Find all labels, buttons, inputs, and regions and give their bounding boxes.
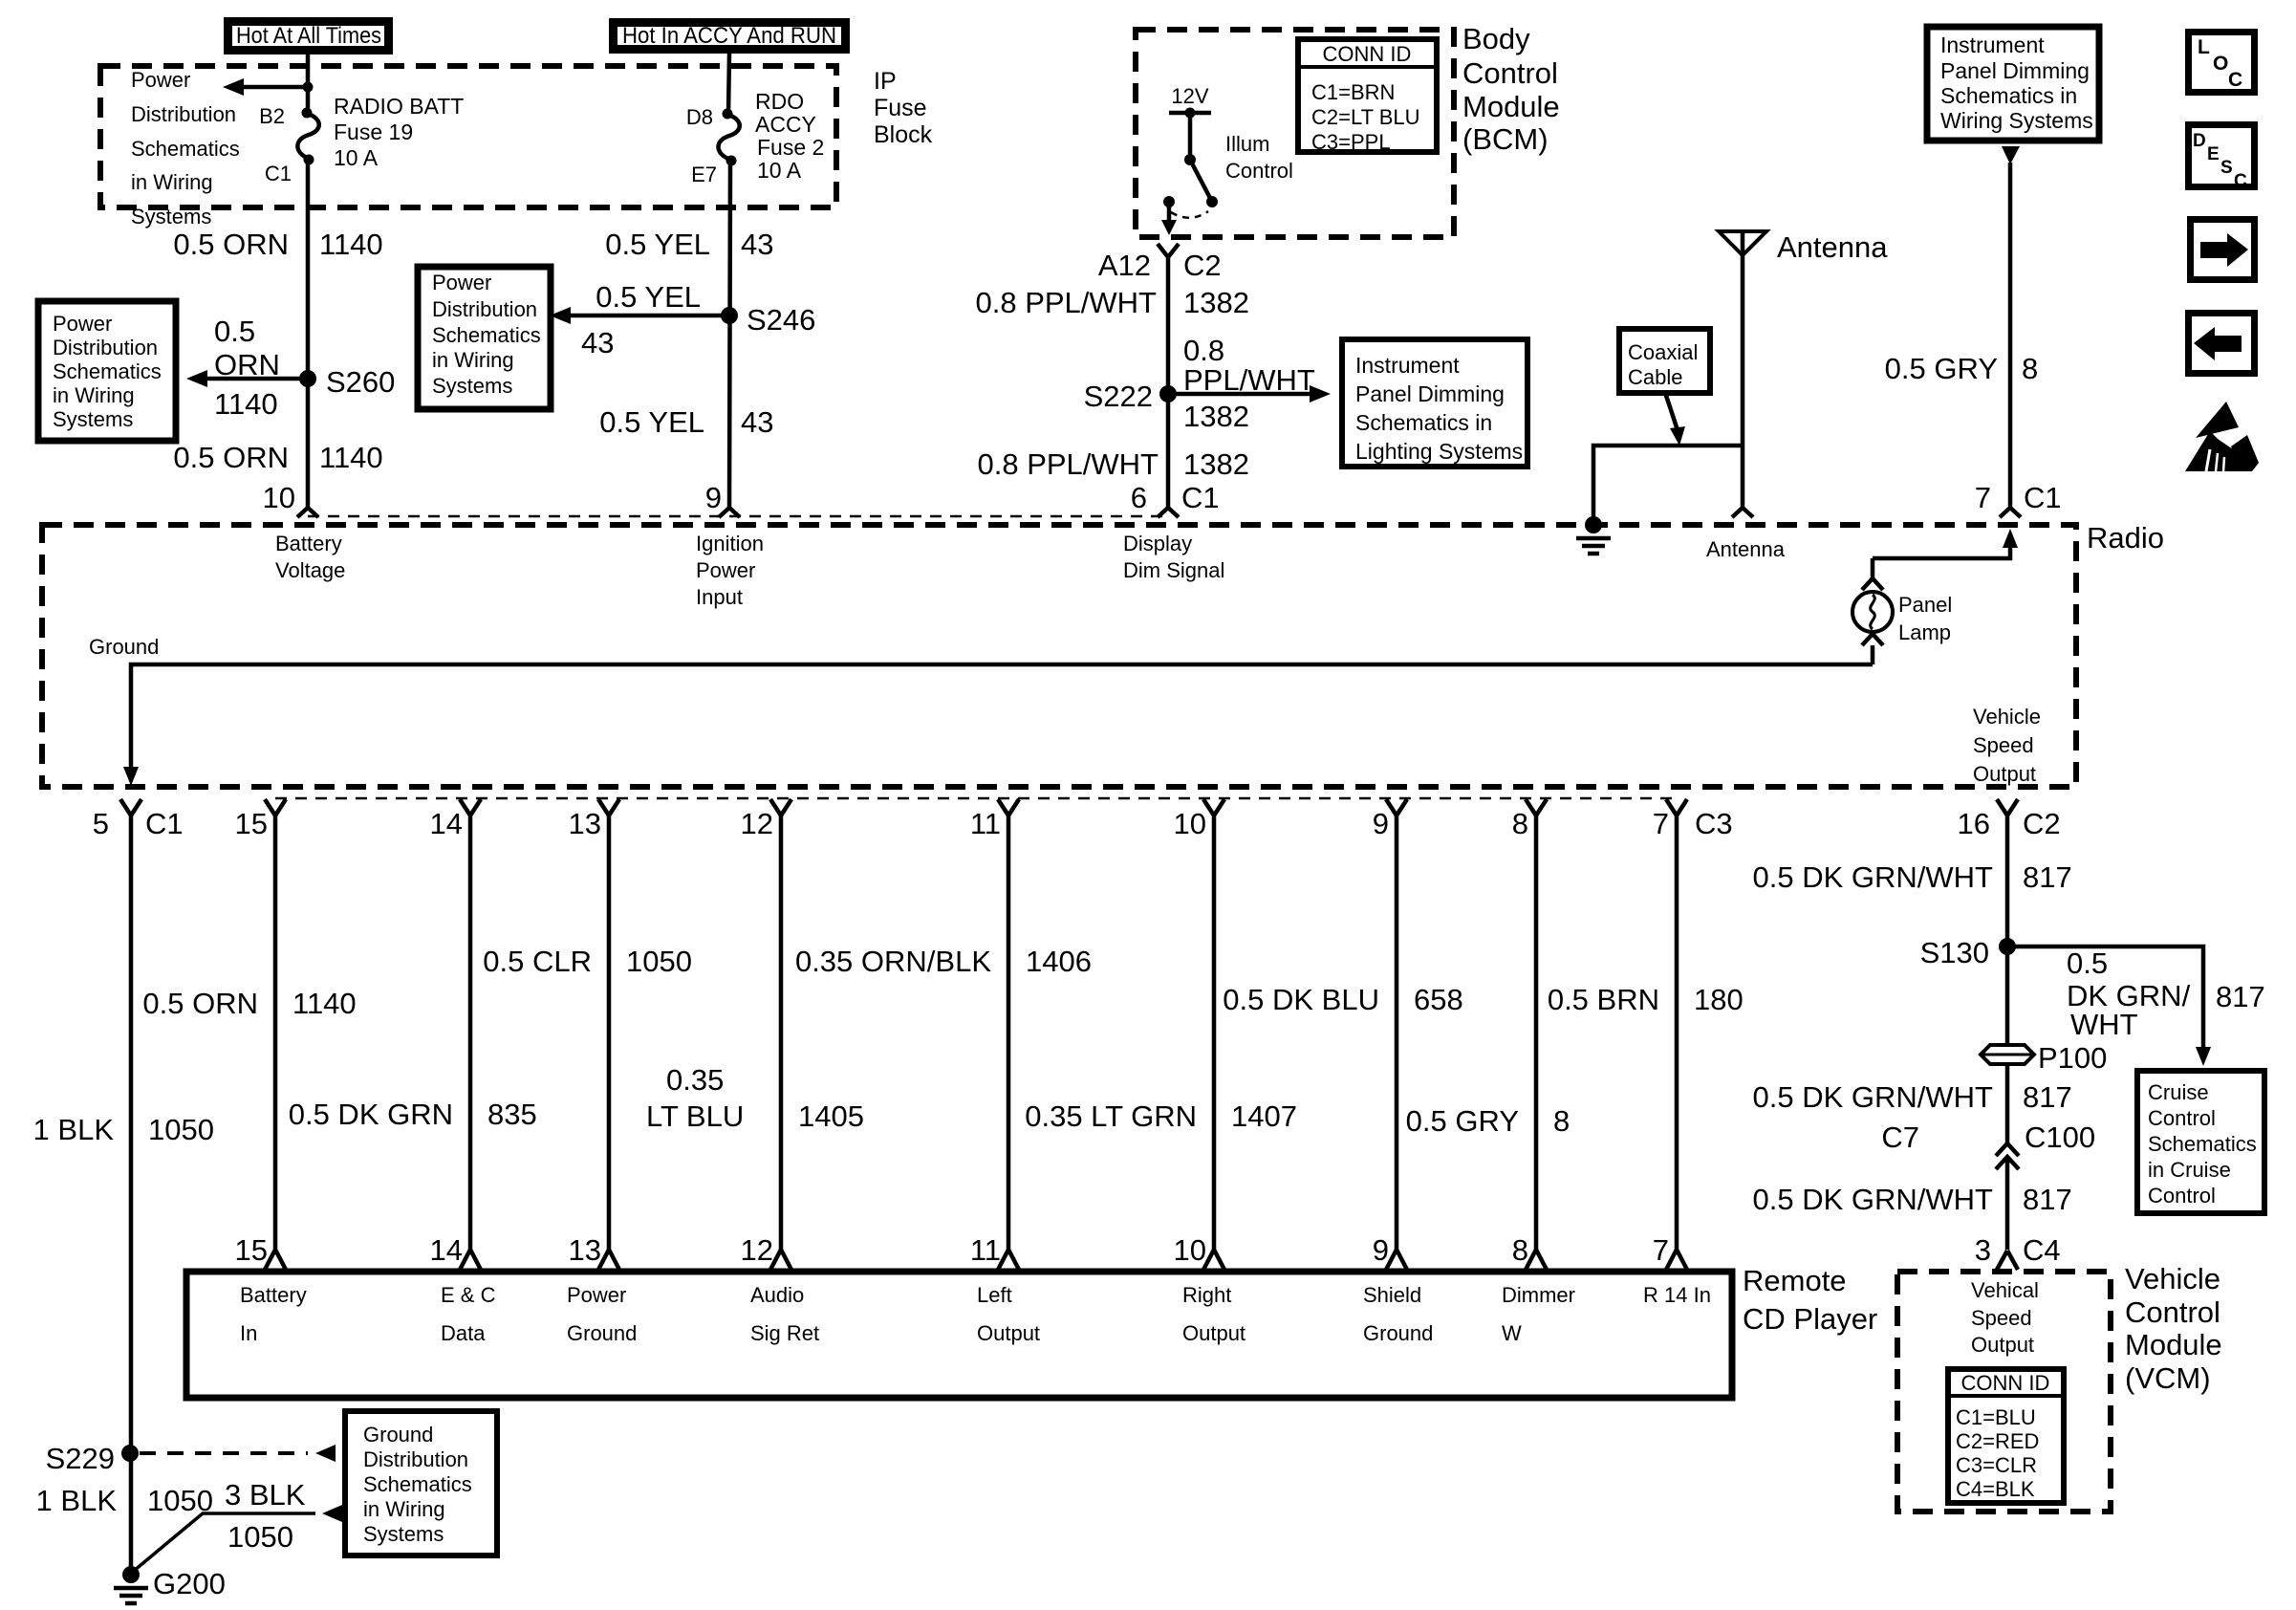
connector C3 dashed line (radio bottom) [275, 797, 1677, 800]
svg-text:Instrument: Instrument [1355, 353, 1460, 378]
svg-text:Fuse 2: Fuse 2 [757, 135, 824, 160]
svg-text:P100: P100 [2038, 1041, 2107, 1075]
svg-text:Schematics in: Schematics in [1355, 410, 1492, 435]
svg-text:Block: Block [874, 121, 933, 148]
svg-text:Systems: Systems [363, 1522, 444, 1546]
svg-text:CD Player: CD Player [1743, 1302, 1877, 1336]
wire arrow from S222 to instrument panel dimming reference [1168, 392, 1314, 397]
svg-text:Panel: Panel [1898, 593, 1952, 617]
svg-text:R 14 In: R 14 In [1643, 1283, 1711, 1307]
svg-text:D: D [2193, 131, 2206, 151]
svg-text:C2=RED: C2=RED [1956, 1429, 2039, 1453]
svg-text:1140: 1140 [319, 228, 383, 261]
svg-text:8: 8 [1512, 1233, 1528, 1267]
svg-text:10 A: 10 A [757, 158, 802, 183]
splice S246 [721, 307, 738, 324]
svg-text:Control: Control [1462, 56, 1558, 90]
svg-text:Panel Dimming: Panel Dimming [1355, 381, 1505, 406]
svg-text:Cruise: Cruise [2148, 1080, 2209, 1104]
svg-text:E & C: E & C [441, 1283, 496, 1307]
svg-text:WHT: WHT [2070, 1008, 2138, 1041]
svg-text:7: 7 [1975, 481, 1991, 514]
svg-text:S260: S260 [326, 365, 395, 399]
svg-text:Control: Control [1225, 159, 1293, 183]
pin 11 wire [998, 799, 1008, 816]
Radio dashed box [42, 525, 2076, 787]
svg-text:C7: C7 [1881, 1120, 1919, 1154]
svg-text:8: 8 [1512, 807, 1528, 840]
svg-text:Distribution: Distribution [363, 1447, 468, 1471]
arrow from coaxial cable box to wire [1665, 393, 1678, 430]
label box "Hot In ACCY And RUN" [614, 23, 846, 50]
svg-text:Wiring Systems: Wiring Systems [1940, 108, 2093, 133]
svg-text:RDO: RDO [755, 89, 804, 114]
svg-text:Distribution: Distribution [53, 336, 158, 359]
svg-text:1140: 1140 [292, 987, 357, 1020]
svg-text:C: C [2228, 69, 2242, 91]
svg-text:Module: Module [2125, 1328, 2222, 1361]
svg-text:C3=CLR: C3=CLR [1956, 1453, 2037, 1477]
svg-text:Hot At All Times: Hot At All Times [236, 23, 381, 49]
svg-text:0.5: 0.5 [214, 315, 255, 348]
svg-text:G200: G200 [153, 1567, 226, 1600]
note box Ground Distribution Schematics in Wiring Systems [345, 1411, 497, 1556]
svg-text:0.5 DK BLU: 0.5 DK BLU [1223, 983, 1379, 1016]
svg-text:Distribution: Distribution [131, 102, 236, 126]
svg-text:Dim Signal: Dim Signal [1123, 558, 1224, 582]
svg-text:D8: D8 [686, 105, 713, 129]
svg-text:Schematics: Schematics [2148, 1132, 2257, 1156]
svg-text:Power: Power [567, 1283, 626, 1307]
svg-text:8: 8 [1553, 1104, 1570, 1138]
svg-text:12V: 12V [1171, 84, 1208, 108]
svg-text:PPL/WHT: PPL/WHT [1183, 363, 1315, 397]
svg-text:817: 817 [2023, 1183, 2072, 1216]
sidebar left arrow box [2189, 314, 2255, 374]
svg-text:C1=BLU: C1=BLU [1956, 1405, 2036, 1429]
wire arrow to power distribution reference [239, 85, 308, 90]
wire 0.5 DK GRN/WHT 817 below P100 [2005, 1065, 2010, 1143]
Remote CD Player box [186, 1272, 1732, 1398]
svg-text:Right: Right [1182, 1283, 1231, 1307]
wire 3 BLK 1050 from G200 to reference [134, 1513, 315, 1571]
arrow from reference box down [2002, 146, 2020, 164]
svg-text:Schematics in: Schematics in [1940, 83, 2077, 108]
svg-text:12: 12 [741, 1233, 773, 1267]
svg-text:Module: Module [1462, 90, 1560, 123]
wire branch 0.5 DK GRN/WHT 817 to cruise control [2007, 946, 2203, 1048]
svg-text:0.35 ORN/BLK: 0.35 ORN/BLK [795, 945, 991, 978]
antenna symbol [1719, 231, 1766, 255]
svg-text:CONN ID: CONN ID [1961, 1371, 2050, 1395]
svg-text:Ground: Ground [567, 1321, 637, 1345]
pin 8 wire [1526, 799, 1536, 816]
pin A12 C2 of BCM [1158, 244, 1168, 257]
svg-text:S: S [2220, 158, 2233, 178]
note box Coaxial Cable [1619, 329, 1710, 393]
label box "Hot At All Times" [228, 22, 389, 51]
svg-text:Power: Power [53, 312, 112, 336]
svg-text:1 BLK: 1 BLK [33, 1113, 115, 1146]
svg-text:(VCM): (VCM) [2125, 1361, 2211, 1395]
svg-text:Input: Input [696, 585, 743, 609]
svg-text:C3: C3 [1695, 807, 1733, 840]
wire arrow from S260 to power distribution reference [203, 377, 308, 381]
svg-text:1140: 1140 [319, 441, 383, 474]
svg-text:15: 15 [235, 1233, 268, 1267]
pin 10 wire [1203, 799, 1214, 816]
svg-text:C4=BLK: C4=BLK [1956, 1477, 2035, 1501]
svg-text:E: E [2207, 144, 2220, 164]
pin 9 wire [1386, 799, 1397, 816]
svg-text:Body: Body [1462, 22, 1530, 55]
svg-text:13: 13 [569, 1233, 601, 1267]
svg-text:Schematics: Schematics [53, 359, 162, 383]
svg-text:8: 8 [2022, 352, 2038, 385]
svg-text:in Wiring: in Wiring [131, 170, 213, 194]
note box Instrument Panel Dimming Schematics in Lighting Systems [1342, 339, 1527, 467]
svg-text:1407: 1407 [1231, 1099, 1297, 1133]
svg-text:1382: 1382 [1183, 286, 1249, 319]
svg-text:3 BLK: 3 BLK [225, 1478, 306, 1512]
svg-text:0.5 DK GRN: 0.5 DK GRN [289, 1098, 453, 1131]
svg-text:3: 3 [1975, 1233, 1991, 1267]
svg-text:S246: S246 [747, 303, 815, 337]
sidebar DESC box [2189, 125, 2255, 187]
svg-text:10: 10 [1174, 1233, 1206, 1267]
Body Control Module dashed box [1136, 30, 1454, 237]
svg-text:RADIO BATT: RADIO BATT [334, 94, 464, 119]
svg-text:Speed: Speed [1973, 733, 2034, 757]
svg-text:O: O [2213, 53, 2228, 75]
svg-text:Sig Ret: Sig Ret [750, 1321, 819, 1345]
svg-text:0.5 DK GRN/WHT: 0.5 DK GRN/WHT [1753, 1183, 1994, 1216]
svg-text:C1: C1 [265, 162, 292, 185]
svg-text:0.5 DK GRN/WHT: 0.5 DK GRN/WHT [1753, 860, 1994, 894]
svg-text:0.35: 0.35 [666, 1063, 724, 1097]
svg-text:12: 12 [741, 807, 773, 840]
svg-text:16: 16 [1958, 807, 1990, 840]
svg-text:0.5 GRY: 0.5 GRY [1885, 352, 1998, 385]
svg-text:C1: C1 [1181, 481, 1220, 514]
svg-text:Instrument: Instrument [1940, 33, 2045, 57]
svg-text:Audio: Audio [750, 1283, 804, 1307]
svg-text:10: 10 [263, 481, 295, 514]
svg-text:Power: Power [432, 271, 491, 294]
svg-text:Ground: Ground [1363, 1321, 1433, 1345]
svg-text:Systems: Systems [432, 374, 512, 398]
CONN ID table (VCM) [1948, 1369, 2064, 1503]
svg-text:817: 817 [2023, 860, 2072, 894]
svg-text:Voltage: Voltage [275, 558, 345, 582]
pin 14 wire [460, 799, 470, 816]
svg-text:1 BLK: 1 BLK [36, 1484, 118, 1517]
coaxial cable ground shield wire [1593, 446, 1743, 525]
CONN ID table (BCM) [1298, 39, 1437, 152]
pin 12 wire [770, 799, 781, 816]
pin 13 wire [598, 799, 609, 816]
svg-text:1406: 1406 [1026, 945, 1092, 978]
svg-text:C: C [2234, 171, 2247, 191]
svg-text:C1=BRN: C1=BRN [1311, 80, 1395, 104]
svg-text:835: 835 [487, 1098, 537, 1131]
svg-text:Shield: Shield [1363, 1283, 1421, 1307]
svg-text:1050: 1050 [626, 945, 692, 978]
svg-text:LT BLU: LT BLU [646, 1099, 744, 1133]
svg-text:Distribution: Distribution [432, 297, 537, 321]
svg-text:C3=PPL: C3=PPL [1311, 130, 1391, 154]
sidebar ESD symbol [2196, 402, 2239, 438]
svg-text:Schematics: Schematics [432, 323, 541, 347]
svg-text:Output: Output [977, 1321, 1040, 1345]
splice S229 [121, 1445, 139, 1462]
svg-text:Power: Power [131, 68, 190, 92]
svg-text:S130: S130 [1920, 936, 1989, 969]
svg-text:in Wiring: in Wiring [432, 348, 514, 372]
svg-text:Control: Control [2125, 1295, 2220, 1329]
svg-text:9: 9 [705, 481, 722, 514]
svg-text:Power: Power [696, 558, 755, 582]
node junction [303, 82, 314, 93]
svg-text:817: 817 [2216, 980, 2265, 1013]
svg-text:0.5 ORN: 0.5 ORN [173, 228, 289, 261]
svg-text:0.5 CLR: 0.5 CLR [483, 945, 592, 978]
pin 15 wire [265, 799, 275, 816]
Vehicle Control Module dashed box [1897, 1272, 2111, 1512]
sidebar right arrow box [2191, 220, 2255, 280]
svg-text:14: 14 [430, 807, 463, 840]
dashed wire from S229 to ground distribution reference [140, 1451, 308, 1455]
svg-text:0.5 GRY: 0.5 GRY [1406, 1104, 1519, 1138]
svg-text:C2: C2 [2023, 807, 2061, 840]
note box Instrument Panel Dimming Schematics in Wiring Systems (top right) [1927, 27, 2099, 141]
sidebar LOC box [2189, 33, 2255, 93]
svg-text:0.5 YEL: 0.5 YEL [605, 228, 710, 261]
svg-text:C2=LT BLU: C2=LT BLU [1311, 105, 1420, 129]
svg-text:W: W [1502, 1321, 1522, 1345]
svg-text:in Wiring: in Wiring [363, 1497, 445, 1521]
svg-text:Control: Control [2148, 1106, 2216, 1130]
note box Cruise Control Schematics in Cruise Control [2137, 1071, 2264, 1213]
svg-text:14: 14 [430, 1233, 463, 1267]
svg-text:Illum: Illum [1225, 132, 1269, 156]
switch Illum Control [1188, 113, 1193, 160]
svg-text:Vehicle: Vehicle [2125, 1262, 2220, 1295]
svg-text:10: 10 [1174, 807, 1206, 840]
svg-text:5: 5 [93, 807, 109, 840]
svg-text:Antenna: Antenna [1706, 537, 1786, 561]
svg-text:13: 13 [569, 807, 601, 840]
svg-text:Left: Left [977, 1283, 1012, 1307]
svg-text:9: 9 [1373, 807, 1389, 840]
svg-text:180: 180 [1694, 983, 1744, 1016]
svg-text:Systems: Systems [53, 407, 133, 431]
svg-text:B2: B2 [259, 104, 285, 128]
wire 0.5 DK GRN/WHT 817 (vehicle speed) [2005, 816, 2010, 1044]
splice S260 [299, 370, 316, 387]
svg-text:11: 11 [970, 807, 1001, 840]
wire from Hot At All Times into fuse B2 [306, 54, 311, 113]
svg-text:0.5 YEL: 0.5 YEL [599, 405, 704, 439]
svg-text:C4: C4 [2023, 1233, 2061, 1267]
svg-text:Lighting Systems: Lighting Systems [1355, 439, 1523, 464]
svg-text:10 A: 10 A [334, 145, 379, 170]
panel lamp [1871, 558, 1875, 578]
svg-text:0.35 LT GRN: 0.35 LT GRN [1025, 1099, 1197, 1133]
wire 0.5 ORN 1140 from fuse to radio pin 10 [306, 160, 311, 508]
svg-text:43: 43 [741, 228, 773, 261]
svg-text:Schematics: Schematics [131, 137, 240, 161]
svg-text:A12: A12 [1098, 249, 1151, 282]
svg-text:7: 7 [1653, 807, 1669, 840]
pin 16 C2 of radio [1997, 799, 2007, 816]
svg-text:C2: C2 [1183, 249, 1222, 282]
svg-text:Control: Control [2148, 1184, 2216, 1207]
svg-text:(BCM): (BCM) [1462, 122, 1549, 156]
IP Fuse Block dashed box [100, 66, 836, 207]
svg-text:15: 15 [235, 807, 268, 840]
svg-text:S222: S222 [1084, 380, 1153, 413]
wire 0.5 YEL 43 from fuse to radio pin 9 [729, 161, 730, 508]
svg-text:C100: C100 [2025, 1120, 2095, 1154]
svg-text:1382: 1382 [1183, 400, 1249, 433]
svg-text:Vehicle: Vehicle [1973, 705, 2041, 729]
svg-text:In: In [240, 1321, 257, 1345]
svg-text:ACCY: ACCY [755, 112, 816, 137]
svg-text:0.5: 0.5 [2067, 946, 2108, 980]
ground node on radio edge [1585, 516, 1602, 533]
svg-text:IP: IP [874, 68, 897, 95]
svg-text:Output: Output [1182, 1321, 1245, 1345]
note box Power Distribution Schematics in Wiring Systems (left) [38, 301, 176, 441]
wire 0.8 PPL/WHT 1382 [1166, 257, 1171, 508]
svg-text:C1: C1 [2024, 481, 2062, 514]
fuse RADIO BATT Fuse 19 10 A [302, 108, 313, 119]
svg-text:L: L [2198, 36, 2210, 58]
svg-text:817: 817 [2023, 1080, 2072, 1114]
svg-text:Data: Data [441, 1321, 486, 1345]
wire arrow from S246 to power distribution reference [566, 314, 729, 318]
svg-text:in Wiring: in Wiring [53, 383, 135, 407]
svg-text:7: 7 [1653, 1233, 1669, 1267]
wire from panel lamp up to pin 7 [1873, 547, 2010, 558]
svg-text:Speed: Speed [1971, 1306, 2032, 1330]
svg-text:0.8 PPL/WHT: 0.8 PPL/WHT [976, 286, 1158, 319]
svg-text:43: 43 [741, 405, 773, 439]
svg-text:0.8 PPL/WHT: 0.8 PPL/WHT [978, 447, 1159, 481]
svg-text:0.5 DK GRN/WHT: 0.5 DK GRN/WHT [1753, 1080, 1994, 1114]
svg-text:1050: 1050 [148, 1113, 214, 1146]
svg-text:1382: 1382 [1183, 447, 1249, 481]
svg-text:0.5 YEL: 0.5 YEL [596, 280, 701, 314]
svg-text:Ignition: Ignition [696, 532, 764, 555]
svg-text:0.5 ORN: 0.5 ORN [173, 441, 289, 474]
pin 7 wire [1666, 799, 1677, 816]
svg-text:Remote: Remote [1743, 1264, 1847, 1297]
svg-text:Output: Output [1973, 762, 2036, 786]
ground G200 [122, 1566, 140, 1583]
wire 1 BLK 1050 down to S229 [129, 816, 134, 1575]
svg-text:0.5 BRN: 0.5 BRN [1548, 983, 1659, 1016]
svg-text:S229: S229 [46, 1442, 115, 1475]
svg-text:Battery: Battery [275, 532, 342, 555]
svg-text:11: 11 [970, 1233, 1001, 1267]
svg-text:Display: Display [1123, 532, 1192, 555]
svg-text:Fuse: Fuse [874, 95, 927, 121]
svg-text:Output: Output [1971, 1333, 2034, 1357]
svg-text:Systems: Systems [131, 205, 211, 228]
svg-text:E7: E7 [691, 163, 717, 186]
svg-text:Dimmer: Dimmer [1502, 1283, 1575, 1307]
svg-text:1050: 1050 [227, 1520, 293, 1554]
svg-text:Vehical: Vehical [1971, 1278, 2039, 1302]
svg-text:Fuse 19: Fuse 19 [334, 120, 413, 144]
wire 0.5 DK GRN/WHT 817 to VCM [2005, 1157, 2010, 1250]
svg-text:Battery: Battery [240, 1283, 307, 1307]
splice S130 [1999, 938, 2016, 955]
svg-text:1140: 1140 [214, 387, 278, 421]
svg-text:Ground: Ground [363, 1423, 433, 1447]
svg-text:in Cruise: in Cruise [2148, 1158, 2231, 1182]
svg-text:0.8: 0.8 [1183, 334, 1224, 367]
svg-text:Antenna: Antenna [1777, 230, 1888, 264]
svg-text:658: 658 [1414, 983, 1463, 1016]
svg-text:Ground: Ground [89, 635, 159, 659]
fuse RDO ACCY Fuse 2 10 A [723, 109, 733, 120]
antenna pin of radio [1732, 508, 1743, 517]
svg-text:0.5 ORN: 0.5 ORN [142, 987, 258, 1020]
svg-text:Schematics: Schematics [363, 1472, 472, 1496]
svg-text:6: 6 [1131, 481, 1147, 514]
connector C1 dashed line (radio top) [308, 515, 1169, 518]
wire from Hot In ACCY into fuse D8 [728, 54, 729, 114]
svg-text:Cable: Cable [1628, 365, 1682, 389]
svg-text:Radio: Radio [2087, 521, 2164, 555]
svg-text:CONN ID: CONN ID [1323, 42, 1412, 66]
svg-text:Coaxial: Coaxial [1628, 340, 1698, 364]
svg-text:43: 43 [581, 326, 614, 359]
svg-text:C1: C1 [145, 807, 184, 840]
note box Power Distribution Schematics in Wiring Systems (middle) [418, 267, 551, 409]
svg-text:9: 9 [1373, 1233, 1389, 1267]
svg-text:ORN: ORN [214, 348, 280, 381]
splice S222 [1159, 385, 1177, 402]
wire 0.5 GRY 8 to radio pin 7 C1 [2008, 163, 2013, 508]
svg-text:Hot In ACCY And RUN: Hot In ACCY And RUN [622, 23, 836, 49]
pass-through grommet P100 [1981, 1045, 2034, 1064]
svg-text:Lamp: Lamp [1898, 620, 1951, 644]
svg-text:1405: 1405 [798, 1099, 864, 1133]
svg-text:Panel Dimming: Panel Dimming [1940, 58, 2090, 83]
